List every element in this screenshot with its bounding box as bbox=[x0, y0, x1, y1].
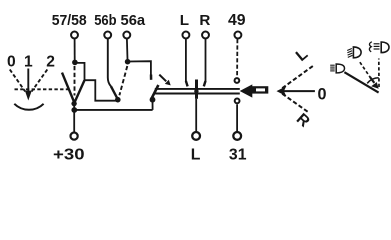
wire R stem bbox=[205, 39, 207, 82]
push knob tail outline bbox=[252, 86, 268, 93]
lamp icon low beam (middle) bbox=[347, 47, 361, 58]
wire 49 dashed stem bbox=[236, 39, 238, 77]
wire 56a stem bbox=[126, 39, 129, 60]
svg-text:R: R bbox=[199, 12, 210, 29]
node V2 pivot bbox=[115, 97, 121, 103]
rod lower line bbox=[155, 93, 240, 95]
svg-text:R: R bbox=[293, 110, 313, 131]
mechanical link dashed horizontal bbox=[15, 88, 70, 90]
svg-text:49: 49 bbox=[228, 12, 246, 29]
svg-text:57/58: 57/58 bbox=[52, 12, 87, 29]
actuation arrowhead bbox=[165, 80, 171, 86]
rotary selector dashed line to 0 bbox=[10, 70, 25, 92]
terminal 57/58 bbox=[71, 32, 78, 39]
wire +30 drop bbox=[73, 110, 75, 132]
terminal 56a bbox=[123, 32, 130, 39]
wire 56a to flasher contact bbox=[128, 61, 151, 75]
svg-text:L: L bbox=[293, 46, 312, 65]
svg-text:0: 0 bbox=[7, 54, 16, 71]
lever fork middle line bbox=[280, 90, 315, 92]
wire V1 pivot to bus bbox=[73, 104, 75, 110]
contact V1 dashed centre position bbox=[74, 66, 76, 96]
contact arm 56a dashed to pivot bbox=[119, 66, 127, 95]
dimmer lever solid line bbox=[344, 72, 378, 92]
wire L stem bbox=[185, 39, 187, 82]
rotary selector arc bbox=[14, 104, 43, 110]
dimmer arrow solid segment bbox=[370, 77, 374, 83]
wire 56b stem with bend bbox=[108, 39, 111, 86]
rotary selector arrowhead bbox=[25, 91, 32, 101]
svg-text:+30: +30 bbox=[53, 147, 85, 164]
contact tip R bbox=[204, 81, 206, 86]
terminal 56b bbox=[104, 32, 111, 39]
svg-text:1: 1 bbox=[24, 54, 33, 71]
contact V1 right arm (solid) bbox=[74, 80, 84, 103]
dimmer dashed arrow to low beam bbox=[360, 62, 370, 77]
node V1 pivot bbox=[71, 101, 76, 106]
bus wire to +30 bbox=[74, 109, 152, 111]
wire to 31 bbox=[236, 104, 238, 132]
wire riser to contact 3 bbox=[152, 100, 154, 110]
terminal R top bbox=[202, 32, 209, 39]
svg-text:31: 31 bbox=[229, 147, 247, 164]
contact point below rod bbox=[235, 99, 240, 104]
terminal L top bbox=[182, 32, 189, 39]
lever fork arrowhead bbox=[277, 86, 287, 96]
dimmer dashed to flash bbox=[378, 59, 380, 88]
rotary selector dashed line to 2 bbox=[32, 70, 48, 92]
terminal 49 bbox=[234, 32, 241, 39]
node bus junction bbox=[71, 107, 77, 113]
contact arm 56b to pivot (solid) bbox=[111, 86, 117, 98]
push knob solid triangle bbox=[240, 84, 253, 97]
wire bracket 57/58 to contact 2 pivot bbox=[75, 63, 118, 101]
actuation arrow at contact 3 bbox=[159, 75, 166, 82]
contact V1 left arm (solid) bbox=[62, 73, 74, 103]
node contact 3 bbox=[150, 97, 156, 103]
svg-text:56a: 56a bbox=[121, 12, 146, 29]
rod upper line bbox=[155, 88, 240, 90]
turn signal wiper bbox=[195, 80, 198, 99]
contact tip 56a drop bbox=[150, 75, 153, 80]
node wiper on rod bbox=[194, 89, 198, 93]
wire 57/58 stem bbox=[74, 39, 76, 61]
lamp icon high beam (left) bbox=[330, 64, 344, 73]
dimmer arrowhead bbox=[371, 82, 379, 89]
rotary selector solid position line with arrowhead bbox=[27, 69, 29, 93]
lamp icon headlamp flash (right) bbox=[369, 42, 389, 53]
node junction 56a bbox=[125, 59, 131, 65]
svg-text:L: L bbox=[180, 12, 189, 29]
terminal +30 bbox=[71, 133, 78, 140]
svg-text:0: 0 bbox=[317, 85, 326, 103]
contact tip L bbox=[186, 81, 188, 86]
wire to L bottom bbox=[195, 99, 197, 132]
dimmer arc bbox=[367, 78, 379, 84]
svg-text:56b: 56b bbox=[94, 12, 116, 29]
terminal L bottom bbox=[192, 132, 200, 140]
lever fork dashed to L bbox=[282, 66, 313, 89]
terminal 31 bbox=[233, 132, 241, 140]
svg-text:L: L bbox=[191, 147, 201, 164]
contact 3 wiper bbox=[151, 85, 158, 99]
contact point above rod bbox=[235, 78, 240, 83]
push knob tail slot bbox=[256, 88, 265, 91]
lever fork dashed to R bbox=[282, 94, 308, 113]
node junction 57/58 bbox=[72, 60, 78, 66]
svg-text:2: 2 bbox=[46, 54, 55, 71]
